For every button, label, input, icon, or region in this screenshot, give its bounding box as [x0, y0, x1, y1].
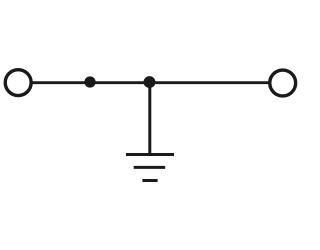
terminal circle right (clamp point X2) [270, 70, 296, 96]
terminal circle left (clamp point X1) [5, 70, 31, 96]
wire (horizontal bus) [31, 81, 269, 84]
ground (earth symbol, top bar) [126, 153, 174, 156]
node A (connection dot) [84, 76, 95, 87]
node B (junction dot) [144, 76, 156, 88]
wire (vertical drop to ground) [148, 82, 151, 155]
ground (earth symbol, middle bar) [134, 166, 166, 169]
ground (earth symbol, bottom bar) [142, 179, 157, 182]
